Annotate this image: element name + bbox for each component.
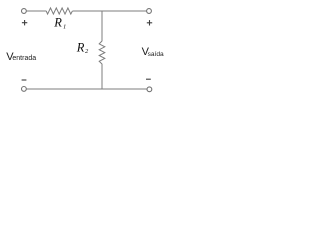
resistor R1 [46, 8, 72, 14]
wire middle vertical lower segment [101, 64, 103, 89]
minus sign bottom-left [22, 79, 27, 81]
wire bottom segment [26, 88, 146, 90]
terminal bottom-right [147, 87, 152, 92]
wire middle vertical upper segment [101, 11, 103, 41]
svg-text:entrada: entrada [12, 55, 36, 62]
resistor R2 [99, 41, 105, 64]
terminal top-right [147, 9, 152, 14]
plus sign top-right [147, 20, 152, 25]
minus sign bottom-right [146, 78, 151, 80]
svg-text:R: R [53, 16, 62, 30]
wire top-left segment [26, 10, 46, 12]
svg-text:saída: saída [148, 51, 164, 58]
wire top-middle segment [73, 10, 103, 12]
svg-text:2: 2 [85, 48, 89, 55]
terminal bottom-left [22, 87, 27, 92]
wire top-right segment [102, 10, 147, 12]
svg-text:R: R [76, 40, 85, 54]
svg-text:1: 1 [63, 24, 66, 31]
plus sign top-left [22, 20, 27, 25]
terminal top-left [22, 9, 27, 14]
